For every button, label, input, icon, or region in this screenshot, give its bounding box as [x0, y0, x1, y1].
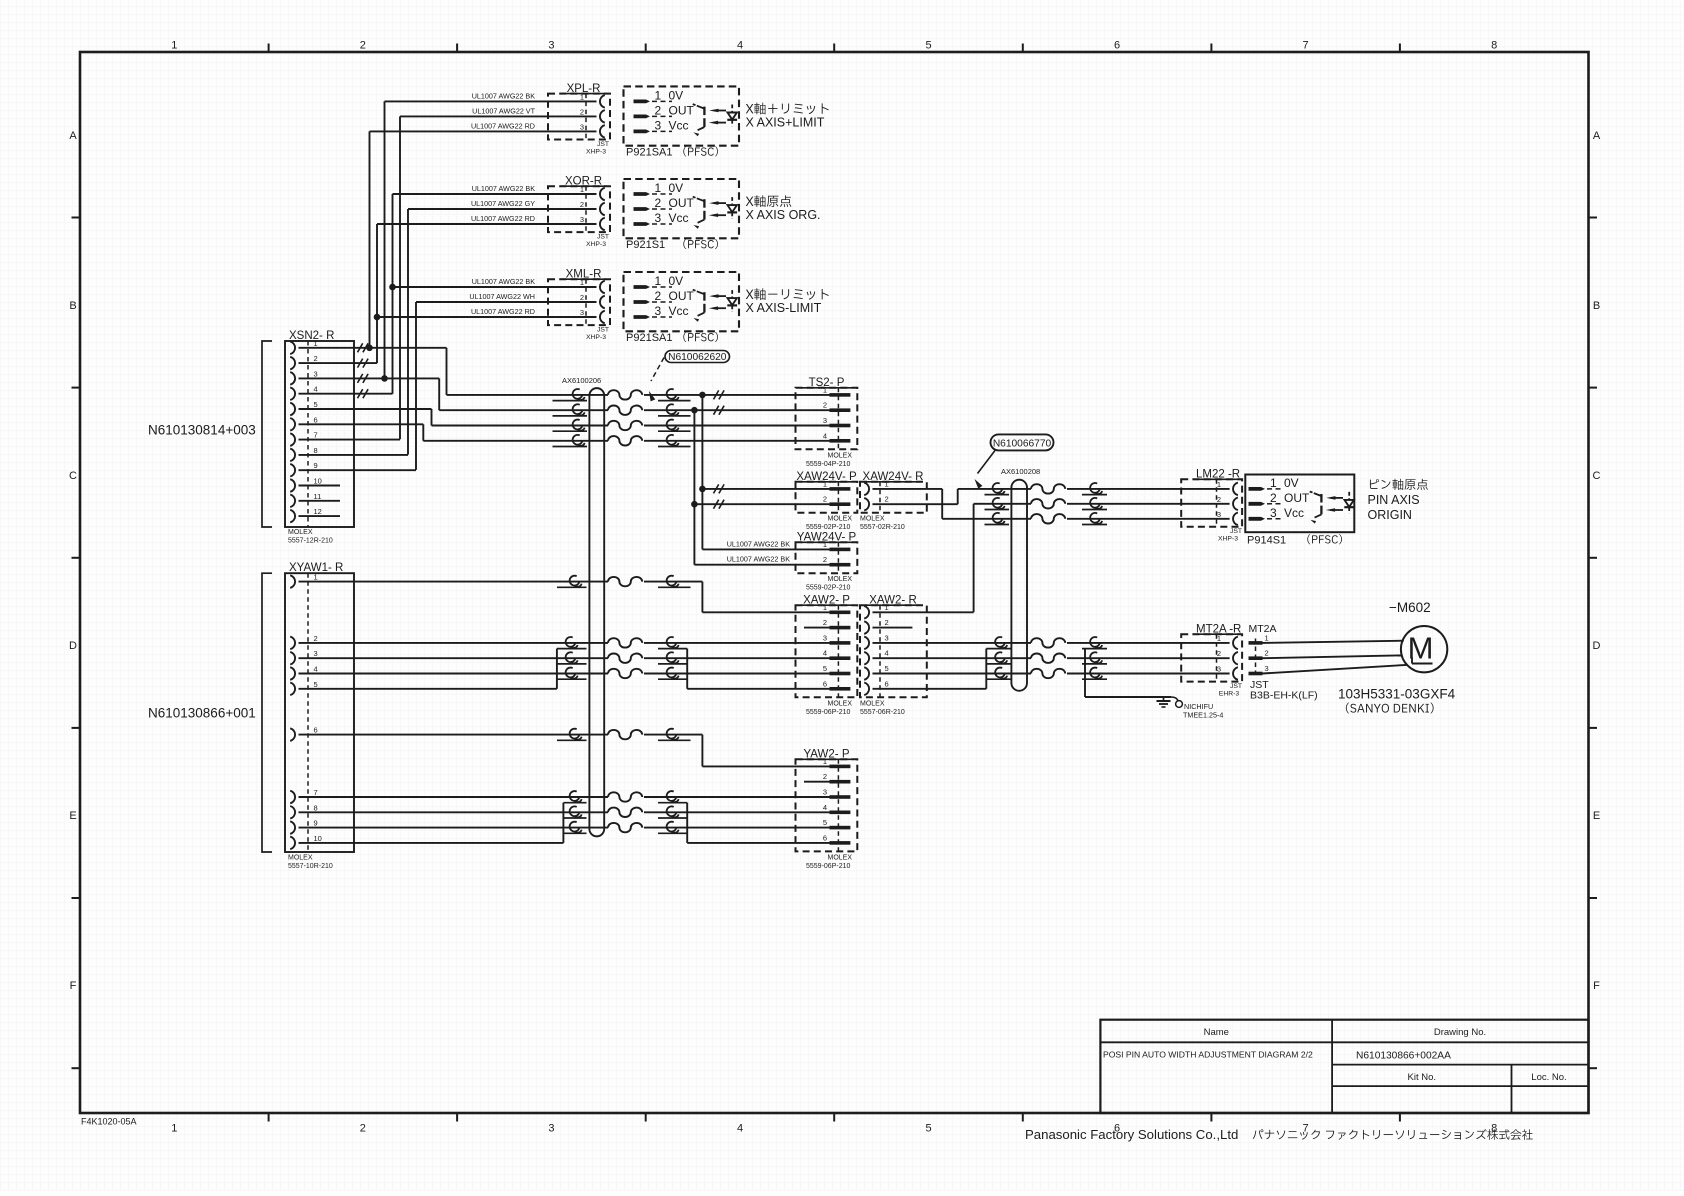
svg-text:5: 5: [885, 664, 889, 673]
XYAW1-R pin 4: [290, 667, 295, 680]
XYAW1-R pin 5: [290, 683, 295, 696]
wire XYAW1 pin7 to YAW2-P pin3: [299, 796, 609, 798]
cable entry mark: [573, 404, 583, 414]
svg-text:5557-12R-210: 5557-12R-210: [288, 538, 333, 545]
svg-text:3: 3: [1217, 665, 1221, 674]
XAW2- P pin 1: [830, 611, 851, 615]
connector TS2- P (MOLEX 5559-04P-210): [796, 388, 858, 450]
svg-text:7: 7: [1303, 40, 1309, 52]
svg-text:1: 1: [314, 339, 318, 348]
svg-text:PIN AXIS: PIN AXIS: [1368, 493, 1420, 507]
light arrows: [714, 295, 726, 297]
stub XSN2 pin10: [299, 485, 341, 487]
wire XYAW1 pin8 to YAW2-P pin4: [299, 811, 609, 813]
P921SA1 pin 2: [634, 300, 651, 304]
LED: [731, 290, 733, 297]
XPL-R pin 2: [600, 110, 605, 123]
svg-text:4: 4: [885, 649, 889, 658]
wire XSN2 pin3 row: [299, 377, 440, 379]
svg-text:JST: JST: [1230, 683, 1242, 690]
svg-text:0V: 0V: [669, 274, 684, 288]
svg-text:B3B-EH-K(LF): B3B-EH-K(LF): [1250, 690, 1318, 702]
wire to cable row1: [958, 488, 985, 490]
cable exit mark: [1090, 668, 1100, 678]
jog down: [941, 489, 943, 519]
svg-text:5559-04P-210: 5559-04P-210: [806, 461, 850, 468]
wire cable row 3 cont.: [644, 425, 830, 427]
svg-text:3: 3: [823, 416, 827, 425]
shield underline: [658, 446, 691, 448]
harness bracket N610130866+001: [262, 573, 272, 852]
row ticks and letters (left/right): [72, 217, 81, 219]
svg-text:0V: 0V: [669, 88, 684, 102]
cable exit mark: [1090, 483, 1100, 493]
XAW2- R pin 3: [864, 637, 869, 650]
svg-text:5557-10R-210: 5557-10R-210: [288, 863, 333, 870]
wire UL1007 AWG22 BK at y=101: [385, 100, 597, 102]
twist mark pin2: [358, 359, 369, 368]
shield underline: [986, 648, 1010, 650]
svg-text:N610062620: N610062620: [668, 352, 727, 363]
cable exit mark: [667, 435, 677, 445]
XPL-R pin 1: [600, 95, 605, 108]
wire to LM22-R pin1: [1067, 488, 1230, 490]
svg-text:Name: Name: [1204, 1027, 1229, 1038]
column ticks and numbers (top): [268, 44, 270, 53]
jog pin3-row2: [438, 378, 440, 410]
wire XYAW1 pin6: [299, 734, 609, 736]
svg-text:POSI PIN AUTO WIDTH ADJUSTMENT: POSI PIN AUTO WIDTH ADJUSTMENT DIAGRAM 2…: [1103, 1050, 1313, 1060]
svg-text:P914S1: P914S1: [1247, 534, 1286, 546]
YAW2- P pin 6: [830, 841, 851, 845]
svg-text:1: 1: [655, 88, 662, 102]
svg-text:MT2A: MT2A: [1249, 623, 1277, 635]
svg-text:5559-06P-210: 5559-06P-210: [806, 863, 850, 870]
shield rail: [556, 649, 558, 689]
svg-text:1: 1: [580, 185, 584, 194]
svg-text:C: C: [69, 470, 77, 482]
YAW2- P pin 5: [830, 826, 851, 830]
svg-text:D: D: [69, 640, 77, 652]
wire to YAW2-P pin6: [687, 842, 829, 844]
svg-text:5559-02P-210: 5559-02P-210: [806, 585, 850, 592]
svg-text:2: 2: [580, 200, 584, 209]
connector XOR-R (JST XHP-3): [548, 186, 610, 232]
svg-text:5559-06P-210: 5559-06P-210: [806, 709, 850, 716]
shield underline: [658, 415, 691, 417]
svg-text:8: 8: [314, 446, 318, 455]
P921S1 pin 2: [634, 207, 651, 211]
svg-text:XHP-3: XHP-3: [586, 334, 606, 341]
jog down to YAW2-P pin1: [701, 735, 703, 767]
svg-text:5557-06R-210: 5557-06R-210: [860, 709, 905, 716]
XAW2- R pin 4: [864, 652, 869, 665]
LED: [731, 105, 733, 112]
P921S1 pin 1: [634, 192, 651, 196]
cable entry mark: [993, 483, 1003, 493]
svg-text:UL1007 AWG22 BK: UL1007 AWG22 BK: [472, 91, 535, 100]
shield underline: [1082, 663, 1107, 665]
svg-text:AX6100206: AX6100206: [562, 376, 601, 385]
svg-text:8: 8: [1491, 40, 1497, 52]
XAW24V- R pin 1: [864, 483, 869, 496]
shield underline: [985, 509, 1010, 511]
twisted wire: [1031, 654, 1065, 663]
balloon N610062620: [665, 351, 730, 363]
wire cable row 4 to TS2 pin4: [423, 440, 608, 442]
svg-text:XHP-3: XHP-3: [1218, 536, 1238, 543]
XAW2- R pin 5: [864, 667, 869, 680]
shield underline: [986, 678, 1010, 680]
XYAW1-R pin 6: [290, 728, 295, 741]
svg-text:5557-02R-210: 5557-02R-210: [860, 524, 905, 531]
shield rail: [562, 803, 564, 843]
junction XAW24V pin2: [691, 501, 698, 508]
P914S1 pin 1: [1249, 487, 1266, 491]
connector XML-R (JST XHP-3): [548, 279, 610, 325]
XSN2-R pin 12: [290, 510, 295, 523]
svg-text:2: 2: [885, 495, 889, 504]
shield underline: [658, 400, 691, 402]
svg-text:6: 6: [823, 679, 827, 688]
cable exit mark: [667, 404, 677, 414]
svg-text:2: 2: [1217, 495, 1221, 504]
svg-text:XHP-3: XHP-3: [586, 241, 606, 248]
vertical bus GY XOR: [407, 209, 409, 455]
svg-text:1: 1: [171, 1123, 177, 1135]
svg-text:UL1007 AWG22 BK: UL1007 AWG22 BK: [727, 555, 790, 564]
column ticks and numbers (bottom): [268, 1113, 270, 1122]
XSN2-R pin 5: [290, 403, 295, 416]
vertical bus BK XPL: [384, 101, 386, 378]
phototransistor: [703, 199, 705, 208]
LM22-R pin 3: [1233, 513, 1238, 526]
wire XYAW1 pin9 cont.: [644, 827, 830, 829]
junction XAW24V pin1: [699, 486, 706, 493]
wire to MT2A-R pin2: [1067, 657, 1230, 659]
shield rail right: [686, 803, 688, 843]
svg-text:UL1007 AWG22 BK: UL1007 AWG22 BK: [727, 539, 790, 548]
svg-text:MOLEX: MOLEX: [288, 855, 313, 862]
connector XPL-R (JST XHP-3): [548, 94, 610, 140]
junction XML BK: [389, 284, 396, 291]
svg-text:2: 2: [360, 1123, 366, 1135]
YAW2- P pin 2: [830, 780, 851, 784]
twist mark: [714, 390, 725, 399]
wire XSN2 pin1 row: [299, 347, 447, 349]
wire XSN2 pin9 row: [299, 469, 417, 471]
svg-text:5: 5: [823, 664, 827, 673]
svg-text:1: 1: [885, 479, 889, 488]
ground symbol: [1163, 697, 1165, 701]
LM22-R pin 1: [1233, 483, 1238, 496]
svg-text:5: 5: [925, 40, 931, 52]
connector XAW24V- R (MOLEX 5557-02R-210): [860, 482, 927, 513]
svg-text:1: 1: [1217, 480, 1221, 489]
wire XSN2 pin5 row: [299, 408, 432, 410]
wire: [985, 488, 1032, 490]
wire cable row 4 cont.: [644, 440, 830, 442]
shield underline: [1082, 509, 1107, 511]
XAW2- P pin 2: [830, 626, 851, 630]
jog pin5-row3: [431, 409, 433, 426]
svg-text:OUT: OUT: [669, 103, 695, 117]
svg-text:2: 2: [1265, 649, 1269, 658]
photo sensor P914S1 (PFSC): [1245, 475, 1354, 533]
svg-text:2: 2: [1217, 649, 1221, 658]
XML-R pin 1: [600, 281, 605, 294]
svg-text:OUT: OUT: [669, 196, 695, 210]
XAW24V- P pin 1: [830, 487, 851, 491]
wire to LM22-R pin2: [1067, 503, 1230, 505]
svg-text:B: B: [69, 300, 76, 312]
wire cable row 3 to TS2 pin3: [432, 425, 609, 427]
wire to MT2A-R pin3: [1067, 673, 1230, 675]
jog down to XAW2-P pin1: [701, 582, 703, 613]
P921SA1 pin 1: [634, 100, 651, 104]
wire XAW2-R pin6: [873, 688, 987, 690]
svg-text:4: 4: [737, 40, 743, 52]
svg-text:C: C: [1593, 470, 1601, 482]
shield underline: [985, 494, 1010, 496]
svg-text:E: E: [1593, 810, 1600, 822]
wire XAW24V-R pin2: [873, 503, 958, 505]
svg-text:A: A: [1593, 130, 1601, 142]
svg-text:0V: 0V: [1284, 476, 1299, 490]
wire UL1007 AWG22 VT at y=116: [400, 115, 597, 117]
svg-text:6: 6: [314, 415, 318, 424]
shield underline: [553, 415, 588, 417]
svg-text:N610066770: N610066770: [993, 438, 1052, 449]
twist mark pin3: [358, 374, 369, 383]
svg-text:5: 5: [925, 1123, 931, 1135]
svg-text:Kit No.: Kit No.: [1408, 1072, 1437, 1083]
svg-text:1: 1: [580, 278, 584, 287]
XYAW1-R pin 9: [290, 821, 295, 834]
shield rail right: [686, 649, 688, 689]
connector MT2A-R (JST EHR-3): [1181, 634, 1242, 681]
P914S1 pin 3: [1249, 517, 1266, 521]
wire: [985, 503, 1032, 505]
photo sensor P921SA1 (PFSC): [624, 86, 740, 145]
cable entry mark: [573, 435, 583, 445]
svg-text:D: D: [1593, 640, 1601, 652]
svg-text:6: 6: [885, 679, 889, 688]
motor M602: [1401, 626, 1447, 672]
svg-text:5: 5: [823, 818, 827, 827]
twisted wire: [608, 421, 642, 430]
stub XSN2 pin11: [299, 500, 341, 502]
twisted wire: [1031, 669, 1065, 678]
wire XYAW1 pin4 to XAW2-P pin5: [299, 673, 609, 675]
shield underline: [1082, 678, 1107, 680]
connector XYAW1-R (MOLEX 5557-10R-210): [285, 573, 354, 852]
TS2- P pin 2: [830, 408, 851, 412]
junction row2: [691, 407, 698, 414]
XSN2-R pin 6: [290, 418, 295, 431]
cable exit mark: [1090, 652, 1100, 662]
XAW2- R pin 2: [864, 621, 869, 634]
twist mark pin1: [358, 343, 369, 352]
stub XAW2- R pin2: [873, 627, 913, 629]
svg-text:2: 2: [580, 107, 584, 116]
connector YAW2- P (MOLEX 5559-06P-210): [796, 759, 858, 851]
svg-text:JST: JST: [597, 234, 609, 241]
svg-text:1: 1: [655, 274, 662, 288]
svg-text:Vcc: Vcc: [669, 304, 689, 318]
XSN2-R pin 1: [290, 342, 295, 355]
svg-text:1: 1: [885, 603, 889, 612]
LM22-R pin 2: [1233, 498, 1238, 511]
svg-text:JST: JST: [597, 327, 609, 334]
svg-text:1: 1: [823, 757, 827, 766]
XYAW1-R pin 3: [290, 652, 295, 665]
svg-text:N610130814+003: N610130814+003: [148, 423, 256, 438]
svg-text:4: 4: [823, 649, 827, 658]
YAW24V- P pin 2: [830, 563, 851, 567]
svg-text:XHP-3: XHP-3: [586, 148, 606, 155]
XSN2-R pin 8: [290, 449, 295, 462]
MT2A pin 2: [1249, 656, 1263, 660]
svg-text:Loc. No.: Loc. No.: [1531, 1072, 1566, 1083]
wire MT2A pin2 to motor: [1263, 655, 1402, 658]
junction at XSN2 pin3: [381, 375, 388, 382]
connector XAW2- P (MOLEX 5559-06P-210): [796, 605, 858, 697]
YAW24V- P pin 1: [830, 548, 851, 552]
svg-text:3: 3: [655, 304, 662, 318]
cable exit mark: [667, 389, 677, 399]
wire XYAW1 pin2 to XAW2-P pin3: [299, 642, 609, 644]
XSN2-R pin 10: [290, 479, 295, 492]
LED: [1348, 492, 1350, 499]
wire XYAW1 pin9 to YAW2-P pin5: [299, 827, 609, 829]
svg-text:MOLEX: MOLEX: [828, 516, 853, 523]
sensor function label: [746, 290, 754, 299]
XML-R pin 3: [600, 311, 605, 324]
svg-text:P921SA1: P921SA1: [626, 332, 672, 344]
stub XAW2- P pin2: [804, 627, 830, 629]
cable entry mark: [573, 389, 583, 399]
twisted wire: [1031, 484, 1065, 493]
XAW2- P pin 4: [830, 656, 851, 660]
svg-text:2: 2: [885, 618, 889, 627]
shield underline: [986, 663, 1010, 665]
svg-text:3: 3: [1265, 664, 1269, 673]
photo sensor P921S1 (PFSC): [624, 179, 740, 238]
shield underline: [1082, 494, 1107, 496]
svg-text:6: 6: [823, 833, 827, 842]
svg-text:B: B: [1593, 300, 1600, 312]
svg-text:MOLEX: MOLEX: [828, 854, 853, 861]
wire XSN2 pin8 row: [299, 454, 409, 456]
vertical bus RD XOR/XML: [376, 224, 378, 363]
svg-text:10: 10: [314, 477, 322, 486]
svg-text:6: 6: [1114, 40, 1120, 52]
svg-text:1: 1: [823, 540, 827, 549]
svg-text:3: 3: [580, 122, 584, 131]
shield underline: [1082, 648, 1107, 650]
twisted wire: [608, 436, 642, 445]
svg-text:Panasonic Factory Solutions Co: Panasonic Factory Solutions Co.,Ltd: [1025, 1127, 1238, 1142]
cable exit mark: [667, 420, 677, 430]
svg-text:UL1007 AWG22 WH: UL1007 AWG22 WH: [469, 292, 535, 301]
cable AX6100208 sheath: [1011, 480, 1027, 691]
svg-text:5: 5: [314, 400, 318, 409]
XSN2-R pin 11: [290, 495, 295, 508]
shield underline: [553, 446, 588, 448]
svg-text:OUT: OUT: [669, 289, 695, 303]
XAW24V- P pin 2: [830, 502, 851, 506]
wire XYAW1 pin2 cont.: [644, 642, 830, 644]
wire to MT2A-R pin1: [1067, 642, 1230, 644]
junction row1: [699, 392, 706, 399]
XOR-R pin 2: [600, 203, 605, 216]
LED: [731, 197, 733, 204]
svg-text:1: 1: [823, 479, 827, 488]
svg-text:3: 3: [823, 633, 827, 642]
wire cable row 1 cont.: [644, 394, 830, 396]
wire: [985, 518, 1032, 520]
P921SA1 pin 3: [634, 315, 651, 319]
P921SA1 pin 1: [634, 285, 651, 289]
wire to XAW24V-P pin2: [694, 503, 829, 505]
YAW2- P pin 3: [830, 795, 851, 799]
svg-text:MOLEX: MOLEX: [860, 700, 885, 707]
svg-text:UL1007 AWG22 BK: UL1007 AWG22 BK: [472, 184, 535, 193]
svg-text:11: 11: [314, 492, 322, 501]
svg-text:N610130866+001: N610130866+001: [148, 706, 256, 721]
wire to YAW2-P pin1: [702, 765, 829, 767]
light arrows: [1331, 497, 1343, 499]
wire to XAW2-P pin6: [687, 688, 829, 690]
svg-text:10: 10: [314, 834, 322, 843]
svg-text:2: 2: [580, 293, 584, 302]
vertical bus WH XML: [415, 302, 417, 470]
wire UL1007 AWG22 BK at y=287: [393, 286, 597, 288]
wire 24V rail B: [693, 410, 695, 565]
connector LM22-R (JST XHP-3): [1181, 479, 1242, 527]
svg-text:2: 2: [1270, 491, 1277, 505]
XPL-R pin 3: [600, 125, 605, 138]
YAW2- P pin 4: [830, 811, 851, 815]
XYAW1-R pin 2: [290, 637, 295, 650]
twist mark pin4: [358, 389, 369, 398]
svg-text:2: 2: [823, 555, 827, 564]
svg-text:0V: 0V: [669, 181, 684, 195]
svg-text:1: 1: [580, 92, 584, 101]
connector XSN2-R (MOLEX 5557-12R-210): [285, 341, 354, 527]
MT2A-R pin 3: [1233, 667, 1238, 680]
riser: [973, 504, 975, 613]
svg-text:6: 6: [314, 726, 318, 735]
wire to YAW24V-P pin1: [702, 548, 829, 550]
svg-text:3: 3: [823, 788, 827, 797]
svg-text:1: 1: [1270, 476, 1277, 490]
YAW2- P pin 1: [830, 765, 851, 769]
wire XAW2-R pin1: [873, 611, 974, 613]
svg-text:3: 3: [885, 633, 889, 642]
wire XSN2 pin7 row: [299, 439, 401, 441]
wire cable row 2 to TS2 pin2: [439, 409, 608, 411]
svg-text:UL1007 AWG22 GY: UL1007 AWG22 GY: [471, 199, 535, 208]
svg-text:N610130866+002AA: N610130866+002AA: [1356, 1051, 1451, 1062]
twisted wire: [608, 406, 642, 415]
XAW2- P pin 6: [830, 687, 851, 691]
svg-text:7: 7: [314, 431, 318, 440]
sensor function label: [1370, 479, 1379, 489]
svg-text:3: 3: [314, 369, 318, 378]
wire to XAW24V-P pin1: [702, 488, 829, 490]
